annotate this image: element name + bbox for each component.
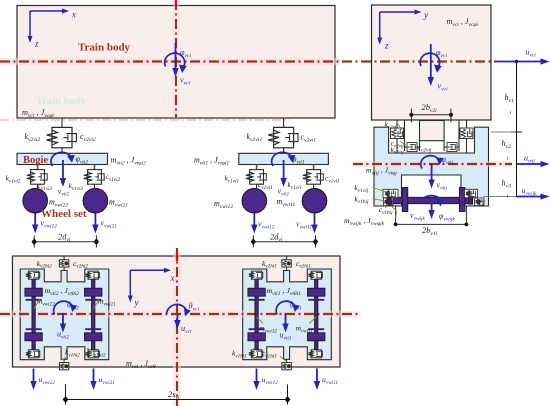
svg-text:y: y: [134, 298, 139, 308]
svg-text:x: x: [170, 273, 175, 283]
svg-text:x: x: [71, 10, 76, 20]
svg-text:y: y: [423, 10, 428, 20]
svg-text:z: z: [34, 39, 39, 49]
svg-text:Train body: Train body: [78, 42, 131, 54]
svg-text:Train body: Train body: [36, 96, 86, 107]
svg-text:Bogie: Bogie: [23, 155, 48, 166]
svg-text:Wheel set: Wheel set: [41, 208, 87, 220]
svg-text:z: z: [384, 41, 389, 51]
